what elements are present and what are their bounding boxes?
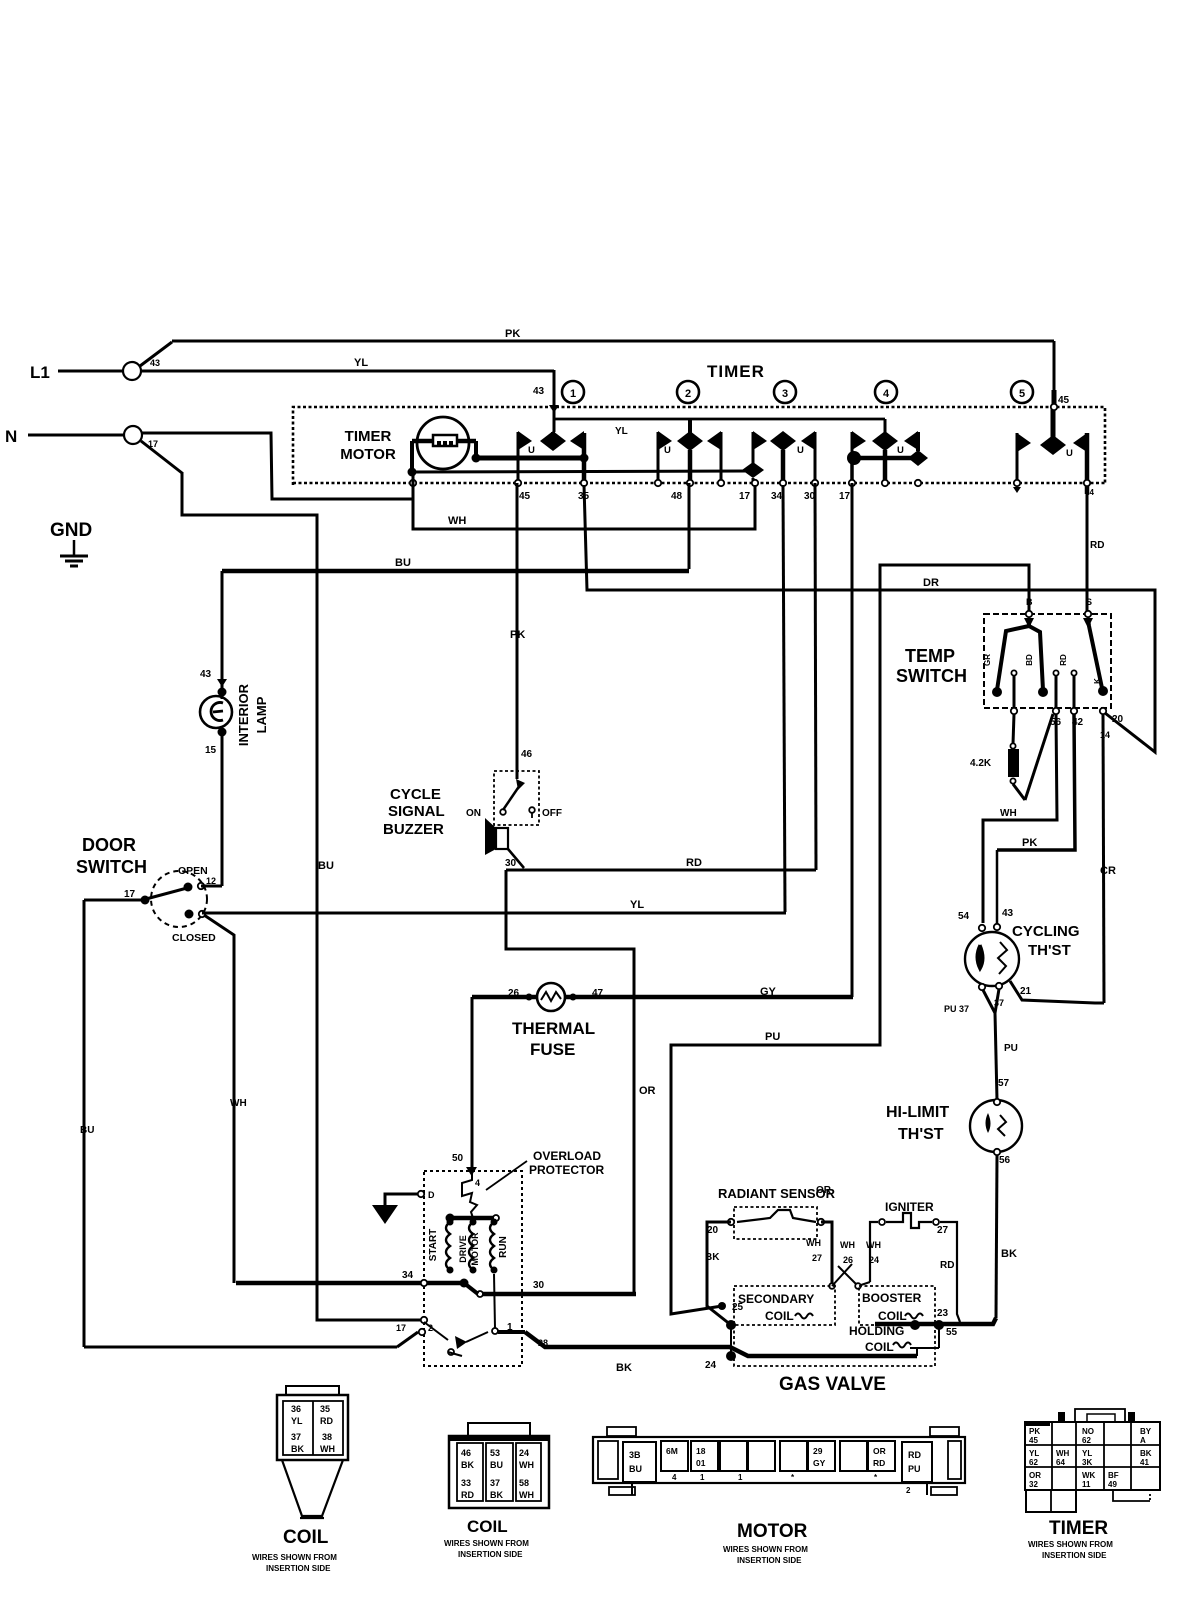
svg-text:COIL: COIL — [467, 1517, 508, 1536]
svg-text:INSERTION SIDE: INSERTION SIDE — [1042, 1551, 1107, 1560]
svg-text:53: 53 — [490, 1448, 500, 1458]
svg-text:TIMER: TIMER — [1049, 1518, 1108, 1539]
svg-text:TIMER: TIMER — [345, 428, 392, 445]
svg-text:34: 34 — [402, 1270, 414, 1281]
svg-text:27: 27 — [937, 1225, 949, 1236]
svg-text:62: 62 — [1029, 1458, 1038, 1467]
svg-text:YL: YL — [630, 899, 644, 911]
svg-text:17: 17 — [396, 1323, 406, 1333]
svg-text:GR: GR — [983, 654, 992, 666]
svg-text:3K: 3K — [1082, 1458, 1092, 1467]
svg-text:OR: OR — [1029, 1471, 1041, 1480]
svg-text:33: 33 — [461, 1478, 471, 1488]
svg-text:BK: BK — [616, 1362, 632, 1374]
svg-text:RD: RD — [908, 1450, 921, 1460]
svg-text:BU: BU — [490, 1460, 503, 1470]
svg-text:RD: RD — [940, 1260, 954, 1271]
svg-text:RUN: RUN — [498, 1236, 509, 1258]
svg-text:WH: WH — [1000, 808, 1017, 819]
svg-text:WH: WH — [448, 515, 466, 527]
svg-text:WIRES SHOWN FROM: WIRES SHOWN FROM — [444, 1539, 529, 1548]
svg-text:WH: WH — [866, 1240, 881, 1250]
svg-text:BF: BF — [1108, 1471, 1119, 1480]
svg-text:4: 4 — [475, 1178, 480, 1188]
svg-text:WIRES SHOWN FROM: WIRES SHOWN FROM — [723, 1545, 808, 1554]
svg-text:PU: PU — [1004, 1043, 1018, 1054]
svg-text:37: 37 — [490, 1478, 500, 1488]
svg-text:YL: YL — [354, 357, 368, 369]
svg-text:RD: RD — [686, 857, 702, 869]
svg-text:PU 37: PU 37 — [944, 1004, 969, 1014]
svg-text:BK: BK — [1140, 1449, 1152, 1458]
svg-text:25: 25 — [732, 1302, 744, 1313]
svg-text:BD: BD — [1025, 654, 1034, 666]
svg-text:24: 24 — [519, 1448, 529, 1458]
svg-text:18: 18 — [696, 1446, 706, 1456]
svg-text:WH: WH — [519, 1490, 534, 1500]
svg-text:BU: BU — [395, 557, 411, 569]
svg-text:46: 46 — [461, 1448, 471, 1458]
svg-text:RD: RD — [461, 1490, 474, 1500]
svg-text:CYCLING: CYCLING — [1012, 923, 1080, 940]
svg-text:17: 17 — [739, 491, 751, 502]
svg-text:BK: BK — [705, 1252, 720, 1263]
svg-text:OPEN: OPEN — [178, 865, 208, 877]
svg-text:45: 45 — [1029, 1436, 1038, 1445]
svg-text:SECONDARY: SECONDARY — [738, 1292, 814, 1306]
svg-text:57: 57 — [998, 1078, 1010, 1089]
svg-text:30: 30 — [505, 858, 517, 869]
svg-text:TH'ST: TH'ST — [1028, 942, 1071, 959]
svg-text:WK: WK — [1082, 1471, 1096, 1480]
svg-text:RD: RD — [1059, 654, 1068, 666]
svg-text:WIRES SHOWN FROM: WIRES SHOWN FROM — [252, 1553, 337, 1562]
svg-text:49: 49 — [1108, 1480, 1117, 1489]
svg-text:PU: PU — [908, 1464, 921, 1474]
svg-text:BU: BU — [318, 860, 334, 872]
svg-text:43: 43 — [533, 386, 545, 397]
svg-text:COIL: COIL — [283, 1527, 329, 1548]
svg-text:CYCLE: CYCLE — [390, 786, 441, 803]
svg-text:01: 01 — [696, 1458, 706, 1468]
svg-text:THERMAL: THERMAL — [512, 1019, 595, 1038]
svg-text:PU: PU — [765, 1031, 780, 1043]
svg-text:N: N — [5, 427, 17, 446]
svg-text:OVERLOAD: OVERLOAD — [533, 1149, 601, 1163]
svg-text:23: 23 — [937, 1308, 949, 1319]
svg-text:4: 4 — [672, 1473, 677, 1482]
svg-text:U: U — [797, 445, 804, 456]
svg-text:CR: CR — [1100, 865, 1116, 877]
svg-text:INTERIOR: INTERIOR — [236, 683, 251, 746]
svg-text:GAS VALVE: GAS VALVE — [779, 1374, 886, 1395]
svg-text:U: U — [664, 445, 671, 456]
svg-text:20: 20 — [707, 1225, 719, 1236]
svg-text:OR: OR — [873, 1446, 886, 1456]
svg-text:TIMER: TIMER — [707, 362, 765, 381]
svg-text:A: A — [1140, 1436, 1146, 1445]
svg-text:1: 1 — [700, 1473, 705, 1482]
svg-text:17: 17 — [148, 439, 158, 449]
svg-text:RD: RD — [1090, 540, 1104, 551]
svg-text:WH: WH — [519, 1460, 534, 1470]
svg-text:WH: WH — [230, 1098, 247, 1109]
svg-text:TH'ST: TH'ST — [898, 1126, 944, 1143]
svg-text:WIRES SHOWN FROM: WIRES SHOWN FROM — [1028, 1540, 1113, 1549]
svg-text:58: 58 — [519, 1478, 529, 1488]
svg-text:27: 27 — [812, 1253, 822, 1263]
svg-text:62: 62 — [1082, 1436, 1091, 1445]
svg-text:ON: ON — [466, 808, 481, 819]
svg-text:COIL: COIL — [865, 1340, 894, 1354]
svg-text:15: 15 — [205, 745, 217, 756]
svg-text:INSERTION SIDE: INSERTION SIDE — [737, 1556, 802, 1565]
svg-text:BK: BK — [490, 1490, 503, 1500]
svg-text:U: U — [528, 445, 535, 456]
svg-text:WH: WH — [840, 1240, 855, 1250]
svg-text:14: 14 — [1100, 730, 1110, 740]
svg-text:INSERTION SIDE: INSERTION SIDE — [266, 1564, 331, 1573]
svg-text:BU: BU — [80, 1125, 94, 1136]
svg-text:17: 17 — [839, 491, 851, 502]
svg-text:D: D — [428, 1190, 435, 1200]
svg-text:45: 45 — [519, 491, 531, 502]
svg-text:6M: 6M — [666, 1446, 678, 1456]
svg-text:1: 1 — [738, 1473, 743, 1482]
svg-text:S: S — [1086, 597, 1092, 607]
svg-text:MOTOR: MOTOR — [737, 1521, 808, 1542]
svg-text:1: 1 — [570, 388, 576, 400]
svg-text:WH: WH — [320, 1444, 335, 1454]
svg-text:SWITCH: SWITCH — [896, 666, 967, 686]
svg-text:U: U — [1066, 448, 1073, 459]
svg-text:46: 46 — [521, 749, 533, 760]
svg-text:3B: 3B — [629, 1450, 641, 1460]
svg-text:BUZZER: BUZZER — [383, 821, 444, 838]
svg-text:55: 55 — [946, 1327, 958, 1338]
svg-text:OR: OR — [639, 1085, 656, 1097]
svg-text:COIL: COIL — [765, 1309, 794, 1323]
svg-text:HI-LIMIT: HI-LIMIT — [886, 1104, 949, 1121]
svg-text:29: 29 — [813, 1446, 823, 1456]
svg-text:43: 43 — [200, 669, 212, 680]
svg-text:38: 38 — [322, 1432, 332, 1442]
svg-text:DOOR: DOOR — [82, 835, 136, 855]
svg-text:43: 43 — [150, 358, 160, 368]
svg-text:GY: GY — [813, 1458, 826, 1468]
svg-text:B: B — [1026, 597, 1033, 607]
svg-text:56: 56 — [999, 1155, 1011, 1166]
svg-text:48: 48 — [671, 491, 683, 502]
svg-text:RD: RD — [320, 1416, 333, 1426]
svg-text:21: 21 — [1020, 986, 1032, 997]
svg-text:BU: BU — [629, 1464, 642, 1474]
svg-text:37: 37 — [291, 1432, 301, 1442]
svg-text:YL: YL — [291, 1416, 303, 1426]
svg-text:24: 24 — [705, 1360, 717, 1371]
svg-text:U: U — [897, 445, 904, 456]
svg-text:FUSE: FUSE — [530, 1040, 575, 1059]
svg-text:26: 26 — [843, 1255, 853, 1265]
svg-text:GND: GND — [50, 520, 92, 541]
svg-text:COIL: COIL — [878, 1309, 907, 1323]
svg-text:41: 41 — [1140, 1458, 1149, 1467]
svg-text:11: 11 — [1082, 1480, 1091, 1489]
svg-text:BK: BK — [461, 1460, 474, 1470]
svg-text:RD: RD — [873, 1458, 885, 1468]
svg-text:PROTECTOR: PROTECTOR — [529, 1163, 604, 1177]
svg-text:OFF: OFF — [542, 808, 562, 819]
svg-text:NO: NO — [1082, 1427, 1094, 1436]
svg-text:YL: YL — [1029, 1449, 1039, 1458]
svg-text:TEMP: TEMP — [905, 646, 955, 666]
svg-text:35: 35 — [320, 1404, 330, 1414]
svg-text:DR: DR — [923, 577, 939, 589]
svg-text:WH: WH — [806, 1238, 821, 1248]
svg-text:45: 45 — [1058, 395, 1070, 406]
svg-text:PK: PK — [505, 328, 520, 340]
svg-text:PK: PK — [1029, 1427, 1040, 1436]
svg-text:MOTOR: MOTOR — [340, 446, 396, 463]
svg-text:2: 2 — [906, 1486, 911, 1495]
svg-text:17: 17 — [124, 889, 136, 900]
svg-text:INSERTION SIDE: INSERTION SIDE — [458, 1550, 523, 1559]
svg-text:YL: YL — [615, 426, 628, 437]
svg-text:WH: WH — [1056, 1449, 1070, 1458]
svg-text:YL: YL — [1082, 1449, 1092, 1458]
svg-text:BK: BK — [1001, 1248, 1017, 1260]
svg-text:5: 5 — [1019, 388, 1025, 400]
svg-text:BY: BY — [1140, 1427, 1152, 1436]
svg-text:50: 50 — [452, 1153, 464, 1164]
svg-text:CLOSED: CLOSED — [172, 932, 216, 944]
svg-text:SWITCH: SWITCH — [76, 857, 147, 877]
svg-text:PK: PK — [1022, 837, 1037, 849]
svg-text:30: 30 — [533, 1280, 545, 1291]
svg-text:3: 3 — [782, 388, 788, 400]
svg-text:BOOSTER: BOOSTER — [862, 1291, 922, 1305]
svg-text:START: START — [428, 1229, 439, 1262]
svg-text:24: 24 — [869, 1255, 879, 1265]
svg-text:34: 34 — [771, 491, 783, 502]
svg-text:54: 54 — [958, 911, 970, 922]
svg-text:OR: OR — [816, 1185, 832, 1196]
svg-text:43: 43 — [1002, 908, 1014, 919]
svg-text:SIGNAL: SIGNAL — [388, 803, 445, 820]
svg-text:2: 2 — [685, 388, 691, 400]
svg-text:64: 64 — [1056, 1458, 1065, 1467]
svg-text:LAMP: LAMP — [254, 696, 269, 733]
svg-text:20: 20 — [1112, 714, 1124, 725]
svg-text:L1: L1 — [30, 363, 50, 382]
svg-text:BK: BK — [291, 1444, 304, 1454]
svg-text:4: 4 — [883, 388, 890, 400]
svg-text:DRIVE: DRIVE — [458, 1235, 468, 1263]
svg-text:32: 32 — [1029, 1480, 1038, 1489]
svg-text:4.2K: 4.2K — [970, 758, 992, 769]
svg-text:PK: PK — [510, 629, 525, 641]
svg-text:36: 36 — [291, 1404, 301, 1414]
svg-text:HOLDING: HOLDING — [849, 1324, 904, 1338]
